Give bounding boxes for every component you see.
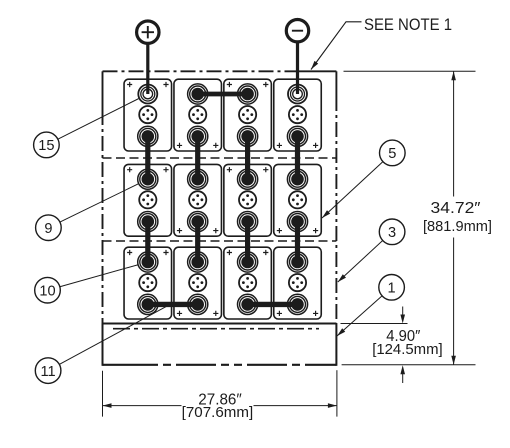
- positive bank terminal symbol: [137, 21, 159, 43]
- intertier cable col 1: row1 bottom to row2 top: [145, 136, 150, 179]
- tray base hidden phantom line: [113, 328, 319, 330]
- jumper cable B11 bottom to B12 bottom: [248, 302, 298, 307]
- battery B3 polarity "+" marks: [227, 82, 269, 87]
- battery B6 (row 2, col 2) case: [174, 164, 222, 236]
- battery B9 (row 3, col 1) case: [124, 247, 172, 319]
- shelf hidden line between row 1 and row 2: [103, 157, 337, 159]
- dimension 4.90 arrows: [400, 307, 405, 384]
- note leader to tray corner: [311, 22, 362, 70]
- battery B2 top terminal post: [188, 84, 208, 104]
- battery B12 top terminal post: [287, 252, 307, 272]
- dimension line 34.72 vertical: [451, 71, 456, 365]
- balloon 9: [36, 215, 62, 241]
- extension line bottom left: [102, 371, 104, 417]
- balloon 5 (battery): [380, 140, 406, 166]
- battery B12 (row 3, col 4) case: [274, 247, 322, 319]
- battery B11 vent cap: [239, 274, 256, 291]
- battery B4 top terminal post: [288, 85, 307, 104]
- intertier cable col 4: row2 bottom to row3 top: [295, 222, 300, 262]
- tray outline top (phantom line): [103, 70, 292, 72]
- battery B1 bottom terminal post: [138, 126, 158, 146]
- battery B10 polarity "+" marks: [177, 311, 219, 316]
- battery B11 bottom terminal post: [238, 294, 258, 314]
- battery B9 polarity "+" marks: [127, 250, 169, 255]
- tray outline left (phantom line): [102, 71, 104, 110]
- battery B6 bottom terminal post: [188, 212, 208, 232]
- battery B1 vent cap: [139, 106, 156, 123]
- negative terminal cable to B4: [296, 42, 299, 95]
- svg-text:[707.6mm]: [707.6mm]: [182, 404, 254, 421]
- battery B2 bottom terminal post: [188, 126, 208, 146]
- battery B1 (row 1, col 1) case: [124, 79, 172, 151]
- positive terminal cable to B1: [146, 43, 149, 95]
- svg-text:5: 5: [388, 146, 396, 162]
- battery B9 top terminal post: [138, 252, 158, 272]
- battery B8 polarity "+" marks: [277, 228, 318, 233]
- battery B8 vent cap: [289, 191, 306, 208]
- svg-text:3: 3: [388, 225, 396, 241]
- balloon 3 (tray outline): [379, 219, 405, 245]
- battery B4 vent cap: [289, 106, 306, 123]
- battery B10 top terminal post: [188, 252, 208, 272]
- shelf hidden line between row 2 and row 3: [103, 240, 337, 242]
- battery B8 (row 2, col 4) case: [274, 164, 322, 236]
- svg-text:SEE NOTE 1: SEE NOTE 1: [364, 15, 452, 34]
- battery B2 vent cap: [189, 106, 206, 123]
- tray base left edge (solid): [102, 324, 104, 366]
- battery B4 bottom terminal post: [287, 126, 307, 146]
- svg-text:[124.5mm]: [124.5mm]: [372, 341, 443, 358]
- svg-text:10: 10: [39, 284, 55, 300]
- intertier cable col 2: row2 bottom to row3 top: [195, 222, 200, 262]
- battery B3 (row 1, col 3) case: [224, 79, 272, 151]
- battery B6 polarity "+" marks: [177, 228, 219, 233]
- battery B11 polarity "+" marks: [227, 250, 269, 255]
- battery B4 polarity "+" marks: [277, 143, 318, 148]
- extension line for 4.90 top: [341, 323, 408, 325]
- battery B7 vent cap: [239, 191, 256, 208]
- battery B5 bottom terminal post: [138, 212, 158, 232]
- svg-text:9: 9: [44, 221, 52, 237]
- battery B12 bottom terminal post: [287, 294, 307, 314]
- battery B4 (row 1, col 4) case: [274, 79, 322, 151]
- jumper cable B2 top to B3 top: [198, 92, 248, 97]
- battery B12 polarity "+" marks: [277, 311, 318, 316]
- leader for balloon 3: [338, 240, 383, 282]
- battery B11 (row 3, col 3) case: [224, 247, 272, 319]
- balloon 11 (jumper cable): [35, 358, 61, 384]
- intertier cable col 3: row1 bottom to row2 top: [245, 136, 250, 179]
- intertier cable col 3: row2 bottom to row3 top: [245, 222, 250, 262]
- intertier cable col 2: row1 bottom to row2 top: [195, 136, 200, 179]
- battery B5 (row 2, col 1) case: [124, 164, 172, 236]
- battery B3 vent cap: [239, 106, 256, 123]
- leader for balloon 9: [60, 184, 138, 222]
- svg-text:[881.9mm]: [881.9mm]: [423, 218, 492, 235]
- battery B9 vent cap: [139, 274, 156, 291]
- battery B1 top terminal post: [138, 85, 157, 104]
- battery B11 top terminal post: [238, 252, 258, 272]
- intertier cable col 1: row2 bottom to row3 top: [145, 222, 150, 262]
- leader for balloon 1: [337, 296, 382, 336]
- battery B10 (row 3, col 2) case: [174, 247, 222, 319]
- battery B8 bottom terminal post: [287, 212, 307, 232]
- tray base top edge (solid): [103, 323, 337, 325]
- battery B7 (row 2, col 3) case: [224, 164, 272, 236]
- svg-text:15: 15: [38, 138, 54, 154]
- balloon 1 (tray base): [379, 275, 405, 301]
- leader for balloon 10: [60, 265, 138, 287]
- negative bank terminal symbol: [286, 20, 308, 42]
- battery B7 polarity "+" marks: [227, 167, 269, 172]
- balloon 15 (terminal post detail): [34, 132, 60, 158]
- extension line bottom right (27.86): [336, 370, 338, 416]
- intertier cable col 4: row1 bottom to row2 top: [295, 136, 300, 179]
- tray outline right (phantom line): [335, 71, 337, 96]
- battery B5 polarity "+" marks: [127, 167, 169, 172]
- dimension line 27.86 horizontal: [103, 403, 337, 408]
- svg-text:1: 1: [388, 281, 396, 297]
- svg-text:34.72″: 34.72″: [431, 200, 482, 217]
- battery B2 (row 1, col 2) case: [174, 79, 222, 151]
- battery B1 polarity "+" marks: [127, 82, 169, 87]
- battery B8 top terminal post: [287, 169, 307, 189]
- extension line top right: [344, 70, 476, 72]
- leader for balloon 5: [322, 162, 383, 218]
- leader for balloon 11: [59, 306, 167, 365]
- battery B12 vent cap: [289, 274, 306, 291]
- battery B3 bottom terminal post: [238, 126, 258, 146]
- battery B3 top terminal post: [238, 84, 258, 104]
- extension line bottom right: [342, 364, 476, 366]
- svg-text:11: 11: [41, 364, 56, 380]
- battery B2 polarity "+" marks: [177, 143, 219, 148]
- battery B7 bottom terminal post: [238, 212, 258, 232]
- battery B7 top terminal post: [238, 169, 258, 189]
- battery B5 top terminal post: [138, 169, 158, 189]
- battery B10 vent cap: [189, 274, 206, 291]
- balloon 10: [35, 277, 61, 303]
- battery B6 vent cap: [189, 191, 206, 208]
- battery B5 vent cap: [139, 191, 156, 208]
- battery B10 bottom terminal post: [188, 294, 208, 314]
- battery B9 bottom terminal post: [138, 294, 158, 314]
- tray base right edge (solid): [335, 324, 337, 366]
- tray bottom edge (phantom with solid corners): [103, 364, 151, 366]
- jumper cable B9 bottom to B10 bottom: [148, 302, 198, 307]
- leader for balloon 15: [58, 99, 139, 140]
- battery B6 top terminal post: [188, 169, 208, 189]
